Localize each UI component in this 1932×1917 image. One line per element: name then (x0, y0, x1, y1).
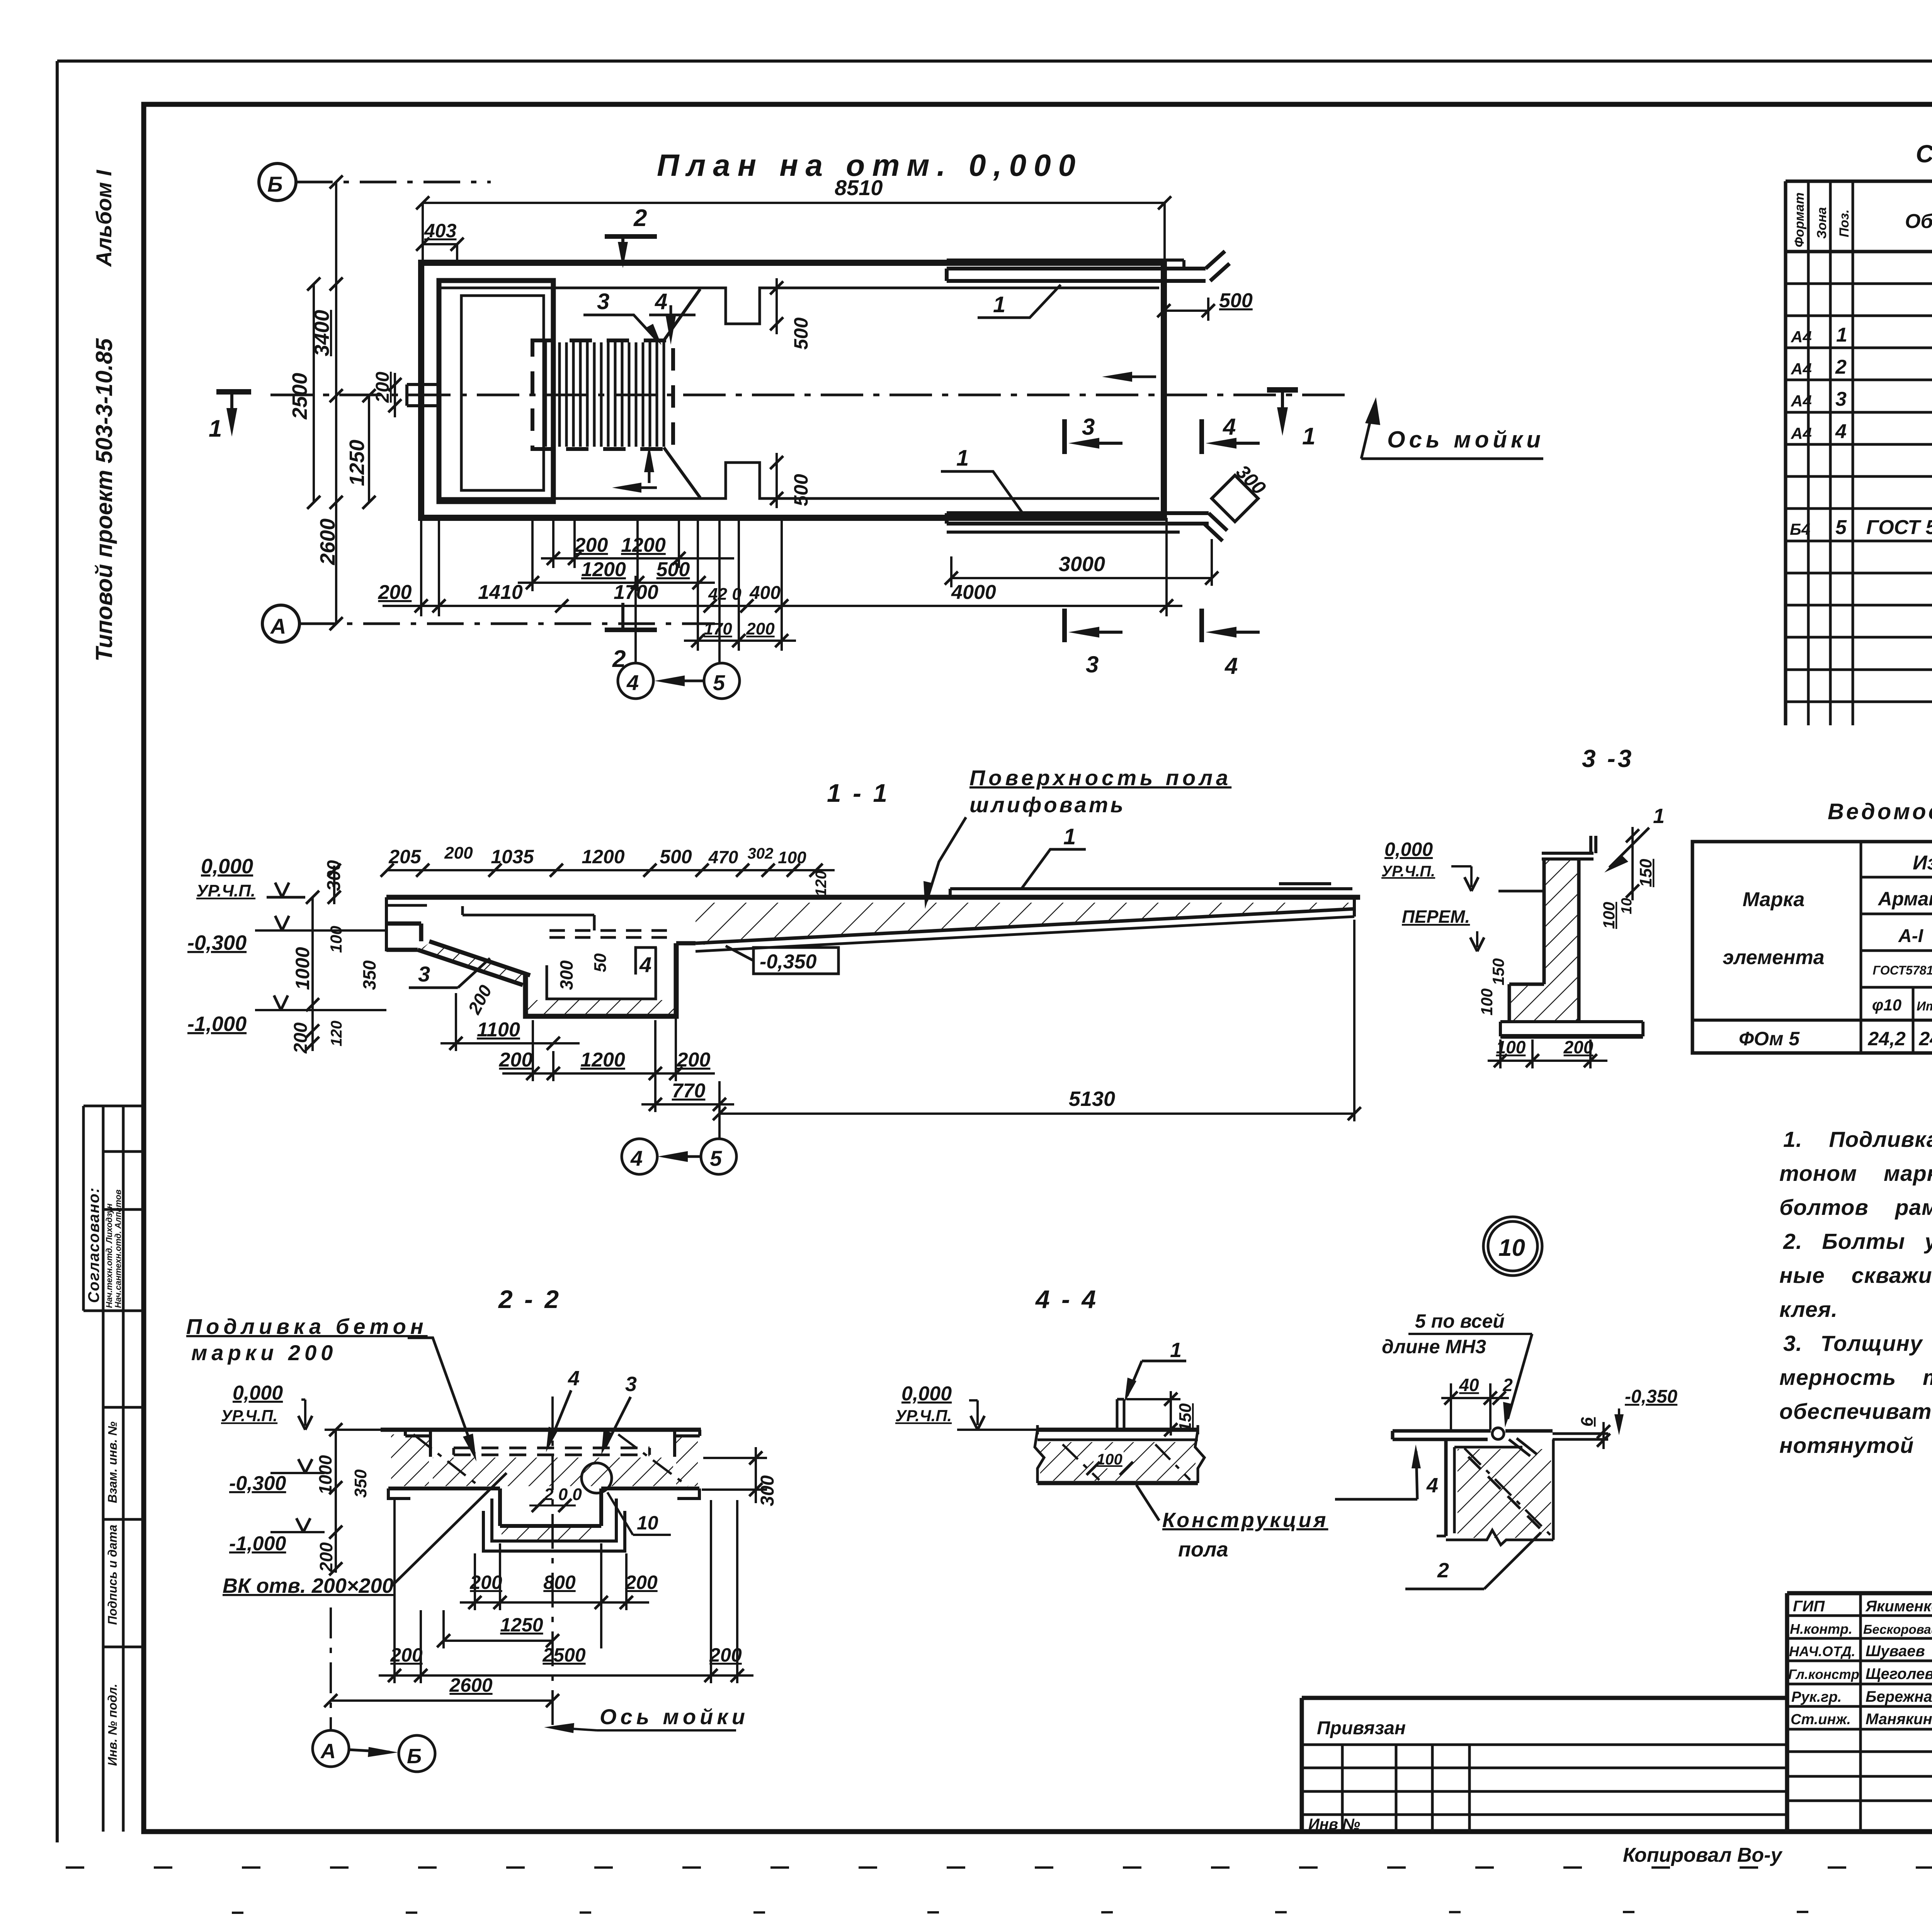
label floor construction (1136, 1485, 1328, 1561)
svg-text:ГИП: ГИП (1793, 1598, 1825, 1615)
wash axis label (1361, 397, 1544, 459)
svg-text:Б: Б (407, 1745, 422, 1768)
svg-text:500: 500 (790, 317, 812, 350)
section mark 3 top (1065, 414, 1122, 454)
wash axis dash-dot line (270, 394, 1352, 396)
svg-text:10: 10 (1619, 898, 1635, 914)
label -0.350 box (726, 946, 838, 974)
leader 1 s44 (1124, 1339, 1186, 1403)
pit outer box (439, 281, 553, 502)
arrow А to Б (349, 1747, 398, 1757)
detail leader 4 (1335, 1444, 1438, 1499)
svg-text:шлифовать: шлифовать (969, 793, 1126, 817)
svg-text:Бережная: Бережная (1866, 1688, 1932, 1705)
axis circle А s22 (313, 1730, 349, 1767)
node circle 4 (618, 663, 653, 699)
s44 slab (1035, 1425, 1204, 1483)
label ВК отв 200x200 (223, 1473, 507, 1597)
s11 hatch pit bottom (526, 1000, 676, 1015)
extension lines below plan (421, 518, 1167, 663)
svg-text:5130: 5130 (1069, 1087, 1115, 1111)
elevation 0.000 s11 (196, 855, 305, 900)
svg-text:1200: 1200 (621, 534, 666, 556)
leader 3 ramp (409, 958, 490, 988)
dim 5130 (713, 920, 1361, 1139)
svg-text:Б4: Б4 (1790, 520, 1810, 538)
svg-text:ВК отв. 200×200: ВК отв. 200×200 (223, 1574, 394, 1597)
svg-text:Ведомость расхода стали на: Ведомость расхода стали на элемент, кг (1828, 799, 1932, 824)
svg-text:НАЧ.ОТД.: НАЧ.ОТД. (1789, 1643, 1855, 1659)
svg-text:24,2: 24,2 (1867, 1028, 1906, 1050)
svg-text:4: 4 (626, 670, 639, 695)
detail dim 6 (1578, 1417, 1610, 1449)
svg-text:Альбом I: Альбом I (92, 170, 116, 267)
svg-text:5: 5 (1835, 516, 1847, 539)
s33 embedded plate МН4 (1542, 836, 1596, 859)
elevation -0.300 s11 (187, 916, 386, 954)
detail thin plate right (1553, 1434, 1608, 1439)
svg-text:-0,300: -0,300 (187, 931, 247, 954)
svg-text:А4: А4 (1791, 360, 1812, 378)
detail plate МН3 (1393, 1431, 1553, 1456)
svg-text:Поз.: Поз. (1837, 209, 1852, 237)
svg-text:42 0: 42 0 (708, 585, 742, 604)
s22 dim row 200 800 200 (460, 1543, 658, 1648)
svg-text:Бескоровайный: Бескоровайный (1863, 1622, 1932, 1636)
svg-text:-0,300: -0,300 (229, 1472, 286, 1495)
dim 300 diamond (1212, 461, 1270, 522)
svg-text:Изделия: Изделия (1913, 852, 1932, 874)
svg-text:500: 500 (656, 558, 690, 581)
s22 dim row 200 2500 200 (379, 1500, 753, 1683)
svg-text:Манякина: Манякина (1866, 1711, 1932, 1728)
arrow 5 to 4 (655, 675, 703, 686)
leader 3 grate frame (583, 289, 662, 345)
svg-text:170: 170 (704, 619, 732, 638)
svg-text:0,000: 0,000 (201, 855, 253, 878)
s33 right dims (1600, 827, 1655, 929)
inner wall line top with notch (439, 288, 1159, 324)
svg-text:50: 50 (591, 953, 610, 972)
leader 3 s22 (601, 1373, 637, 1455)
dim 200 opening (372, 372, 401, 417)
svg-text:болтов рамы.: болтов рамы. (1779, 1195, 1932, 1220)
detail concrete block (1446, 1439, 1553, 1545)
svg-text:10: 10 (637, 1512, 658, 1534)
svg-text:Формат: Формат (1792, 192, 1807, 247)
s44 embedded flange МН2 (1117, 1399, 1124, 1430)
svg-text:100: 100 (1478, 988, 1496, 1015)
s33 wall (1544, 859, 1579, 1022)
funnel transition diagonals (664, 289, 700, 340)
svg-text:2: 2 (1835, 356, 1847, 378)
dim 500 top notch (770, 278, 812, 350)
svg-text:нотянутой арматурной проволоки: нотянутой арматурной проволоки по ГОСТ 6… (1779, 1433, 1932, 1458)
svg-text:тоном марки 200 после окончате: тоном марки 200 после окончательной затя… (1779, 1161, 1932, 1186)
leader 1 top rail (978, 285, 1061, 318)
s11 floor top line (386, 895, 1360, 900)
svg-text:Марка: Марка (1743, 888, 1805, 911)
svg-text:А: А (270, 614, 286, 638)
svg-text:А: А (320, 1740, 336, 1763)
svg-text:ные скважины и закрепить с пом: ные скважины и закрепить с помощью эпокс… (1779, 1263, 1932, 1288)
svg-text:УР.Ч.П.: УР.Ч.П. (221, 1407, 277, 1425)
svg-text:200: 200 (1563, 1037, 1594, 1057)
dim 300 right s22 (702, 1447, 778, 1506)
svg-text:длине МН3: длине МН3 (1382, 1336, 1486, 1357)
dim 3000 (945, 539, 1218, 586)
svg-text:ГОСТ 5781-82: ГОСТ 5781-82 (1866, 516, 1932, 539)
svg-text:1250: 1250 (345, 440, 369, 486)
svg-text:2. Болты установить в готовый: 2. Болты установить в готовый фундамент … (1783, 1229, 1932, 1254)
svg-text:4: 4 (1835, 420, 1847, 443)
s22 dim 1250 (437, 1610, 559, 1648)
elevation 0.000 s44 (895, 1383, 1037, 1430)
label floor surface grind (923, 765, 1231, 909)
svg-text:Типовой проект 503-3-10.85: Типовой проект 503-3-10.85 (91, 338, 117, 662)
svg-text:3: 3 (597, 289, 609, 314)
s33 base slab (1500, 1022, 1643, 1036)
svg-text:марки 200: марки 200 (191, 1340, 337, 1365)
svg-text:6: 6 (1578, 1417, 1597, 1427)
detail circle 10 (1483, 1217, 1542, 1276)
svg-text:1: 1 (1170, 1339, 1182, 1362)
specification table rows (1790, 259, 1932, 698)
section mark 4 bottom (1202, 609, 1260, 679)
svg-text:200: 200 (372, 372, 393, 403)
svg-text:Конструкция: Конструкция (1162, 1509, 1328, 1532)
svg-text:1: 1 (209, 415, 222, 442)
svg-text:0,000: 0,000 (901, 1383, 952, 1405)
dim row A 200 1200 (541, 534, 734, 565)
svg-text:ПЕРЕМ.: ПЕРЕМ. (1402, 907, 1470, 927)
svg-text:φ10: φ10 (1872, 996, 1901, 1014)
svg-text:1700: 1700 (614, 581, 658, 604)
svg-text:3: 3 (1082, 414, 1095, 440)
detail angle (1437, 1439, 1522, 1536)
arrow 5 to 4 s11 (658, 1151, 700, 1162)
svg-text:Взам. инв. №: Взам. инв. № (105, 1421, 119, 1503)
svg-text:302: 302 (748, 845, 774, 862)
svg-text:150: 150 (1636, 859, 1655, 887)
grouting dashed box (532, 340, 673, 449)
svg-text:200: 200 (378, 581, 412, 604)
section mark 1 left (209, 392, 251, 442)
svg-text:0,000: 0,000 (1384, 839, 1433, 860)
left margin stamp labels (85, 1187, 123, 1766)
svg-text:100: 100 (1097, 1451, 1122, 1468)
svg-text:1000: 1000 (315, 1455, 335, 1495)
svg-text:500: 500 (660, 846, 692, 867)
svg-text:200: 200 (291, 1022, 311, 1054)
svg-text:300: 300 (757, 1475, 778, 1506)
svg-text:1: 1 (993, 292, 1005, 317)
svg-text:-0,350: -0,350 (1625, 1386, 1677, 1407)
top rail МН2 (947, 251, 1230, 281)
svg-text:3400: 3400 (310, 310, 333, 356)
section mark 3 bottom (1065, 609, 1122, 677)
label concrete grout (186, 1314, 476, 1461)
svg-text:Итого: Итого (1917, 999, 1932, 1013)
s11 left slab bottom (386, 924, 530, 985)
svg-text:Подливка бетон: Подливка бетон (186, 1314, 428, 1339)
svg-text:Согласовано:: Согласовано: (85, 1187, 102, 1303)
dim 8510 (416, 175, 1171, 263)
svg-text:-0,350: -0,350 (760, 951, 817, 973)
svg-text:300: 300 (324, 860, 344, 891)
elevation -1.000 s11 (187, 995, 386, 1036)
svg-text:1410: 1410 (478, 581, 523, 604)
axis circle Б s22 (399, 1735, 435, 1772)
s11 rail plate top right (950, 884, 1352, 897)
elevation 0.000 s22 (221, 1382, 312, 1430)
svg-text:клея.: клея. (1779, 1297, 1838, 1322)
s22 hatch (391, 1434, 429, 1486)
title block inner grid (1302, 1593, 1932, 1832)
svg-text:Ст.инж.: Ст.инж. (1791, 1711, 1851, 1728)
pit inner box (461, 296, 544, 490)
svg-text:Якименко: Якименко (1865, 1598, 1932, 1615)
svg-text:3: 3 (418, 962, 430, 986)
specification table header texts (1792, 192, 1932, 248)
svg-text:200: 200 (316, 1542, 336, 1572)
svg-text:2: 2 (1502, 1375, 1513, 1395)
s33 bottom dims (1488, 1037, 1607, 1068)
left wall opening (407, 384, 439, 406)
svg-text:Н.контр.: Н.контр. (1790, 1621, 1852, 1637)
svg-text:770: 770 (672, 1080, 706, 1102)
s22 left rim angle (405, 1430, 430, 1457)
svg-text:1: 1 (1063, 824, 1076, 849)
svg-text:100: 100 (327, 926, 345, 953)
left vertical dimension chain (314, 182, 369, 624)
bottom scan dashes (66, 1866, 1932, 1869)
svg-text:2600: 2600 (316, 519, 339, 565)
dim row C (378, 581, 1182, 612)
detail leader 2 (1405, 1533, 1541, 1589)
foundation outline (421, 263, 1164, 518)
svg-text:5 по всей: 5 по всей (1415, 1310, 1505, 1332)
svg-text:120: 120 (813, 871, 830, 896)
svg-text:350: 350 (351, 1469, 370, 1498)
svg-text:Привязан: Привязан (1317, 1718, 1406, 1738)
s22 narrow pit (500, 1488, 601, 1526)
svg-text:1: 1 (956, 446, 969, 471)
svg-text:1: 1 (1836, 324, 1847, 346)
svg-text:0,000: 0,000 (233, 1382, 283, 1404)
svg-text:1. Подливка под раму Р1 должна: 1. Подливка под раму Р1 должна осуществл… (1783, 1127, 1932, 1152)
dim 403 (416, 220, 464, 263)
left inner wall (438, 288, 440, 498)
s22 left vertical dims (315, 1423, 370, 1575)
svg-text:1200: 1200 (581, 558, 626, 581)
svg-text:4: 4 (630, 1146, 643, 1170)
notes text block (1779, 1127, 1932, 1458)
s22 floor line (381, 1428, 701, 1432)
svg-text:3: 3 (1835, 388, 1847, 410)
svg-text:Зона: Зона (1815, 207, 1829, 239)
detail dim 40 2 (1441, 1375, 1513, 1430)
svg-text:-1,000: -1,000 (187, 1012, 247, 1036)
inner wall line bottom with notch (439, 463, 1159, 498)
svg-text:Нач.техн.отд. Лиходзун: Нач.техн.отд. Лиходзун (104, 1203, 114, 1308)
leader 4 s22 (546, 1367, 580, 1452)
s11 pit inner (547, 947, 656, 999)
title block role names (1788, 1598, 1932, 1728)
dim row D 170 200 (684, 619, 796, 647)
s11 upper basin edge (463, 906, 594, 930)
svg-text:4: 4 (655, 289, 667, 314)
axis circle А (262, 605, 715, 642)
svg-text:1250: 1250 (500, 1614, 543, 1636)
svg-text:1: 1 (1302, 423, 1315, 450)
s22 bolt node circle ref (582, 1463, 612, 1493)
svg-text:120: 120 (328, 1021, 345, 1046)
elevation 0.000 s33 (1381, 839, 1478, 891)
dim 1100 (440, 993, 580, 1051)
svg-text:Инв №: Инв № (1308, 1816, 1360, 1833)
svg-text:А4: А4 (1791, 392, 1812, 410)
svg-text:УР.Ч.П.: УР.Ч.П. (196, 881, 255, 900)
svg-text:УР.Ч.П.: УР.Ч.П. (895, 1407, 952, 1425)
svg-text:500: 500 (790, 474, 812, 506)
svg-text:200: 200 (444, 844, 473, 862)
leader 1 rail plate (1022, 824, 1086, 888)
svg-text:Арматура класса: Арматура класса (1878, 888, 1932, 910)
specification table grid (1786, 181, 1932, 725)
svg-text:2500: 2500 (542, 1644, 585, 1666)
svg-text:Гл.констр.: Гл.констр. (1788, 1667, 1863, 1682)
svg-text:3. Толщину клеевого слоя приня: 3. Толщину клеевого слоя принять от 3 до… (1783, 1331, 1932, 1356)
svg-text:3: 3 (625, 1373, 637, 1396)
svg-text:205: 205 (388, 846, 422, 867)
grate hatch lines (546, 342, 664, 447)
node circle 5 (704, 663, 740, 699)
svg-text:Спецификация фундамента ФО: Спецификация фундамента ФОм5 (1916, 140, 1932, 168)
elevation -1.000 s22 (229, 1518, 325, 1555)
svg-text:Шуваев: Шуваев (1866, 1643, 1925, 1660)
s22 axis А line (330, 1607, 332, 1730)
svg-text:-1,000: -1,000 (229, 1533, 286, 1555)
svg-text:200: 200 (746, 619, 775, 638)
svg-text:Ось мойки: Ось мойки (1387, 427, 1544, 452)
svg-text:4: 4 (1426, 1474, 1438, 1497)
svg-text:300: 300 (556, 960, 577, 990)
elevation -0.300 s22 (229, 1459, 325, 1495)
s22 center axis (551, 1397, 554, 1727)
dim 500 right (1157, 289, 1253, 321)
s22 dim 2600 (324, 1674, 559, 1707)
detail bolt (1492, 1428, 1504, 1439)
s11 pit outline (526, 943, 676, 1016)
svg-text:3: 3 (1086, 651, 1099, 677)
title block outline (1302, 1593, 1932, 1832)
svg-text:1 - 1: 1 - 1 (827, 779, 889, 807)
steel table data row (1739, 1028, 1932, 1050)
svg-text:А4: А4 (1791, 328, 1812, 346)
label ПЕРЕМ s33 (1402, 907, 1484, 951)
s11 hatch ramp (418, 943, 530, 986)
svg-text:200: 200 (499, 1049, 533, 1071)
svg-text:150: 150 (1489, 958, 1507, 985)
s11 thin underline left (387, 904, 427, 907)
svg-text:Рук.гр.: Рук.гр. (1791, 1689, 1842, 1705)
svg-text:Подпись и дата: Подпись и дата (105, 1525, 119, 1625)
axis circle Б (259, 163, 491, 201)
detail label 5 по всей длине МН3 (1382, 1310, 1532, 1427)
svg-text:100: 100 (1600, 902, 1618, 929)
detail anchor dashed (1468, 1457, 1542, 1530)
svg-text:Б: Б (267, 172, 283, 196)
svg-text:ГОСТ5781-82: ГОСТ5781-82 (1873, 963, 1932, 977)
svg-text:Ось мойки: Ось мойки (600, 1704, 749, 1729)
svg-text:2600: 2600 (449, 1674, 492, 1696)
leader 1 bottom rail (941, 446, 1023, 514)
svg-text:500: 500 (1219, 289, 1253, 312)
dim 200 pit s22 (529, 1485, 582, 1512)
svg-text:4: 4 (1223, 414, 1236, 440)
svg-text:Поверхность пола: Поверхность пола (969, 765, 1231, 790)
svg-text:Копировал Во-у: Копировал Во-у (1623, 1844, 1783, 1866)
section mark 1 right (1267, 390, 1315, 450)
left margin stamp table (83, 1106, 144, 1832)
svg-text:4: 4 (568, 1367, 580, 1390)
svg-text:4000: 4000 (951, 581, 996, 604)
steel table grid (1692, 842, 1932, 1053)
wash axis label s22 (544, 1704, 749, 1733)
svg-text:403: 403 (424, 220, 457, 242)
svg-text:400: 400 (749, 583, 781, 603)
svg-text:100: 100 (778, 848, 806, 867)
svg-text:350: 350 (359, 960, 379, 990)
svg-text:2 - 2: 2 - 2 (498, 1285, 561, 1313)
section mark 2 bottom (605, 603, 657, 672)
svg-text:пола: пола (1178, 1538, 1228, 1561)
svg-text:800: 800 (543, 1572, 576, 1593)
svg-text:200: 200 (574, 534, 608, 556)
svg-text:Обозначение: Обозначение (1905, 210, 1932, 233)
svg-text:1100: 1100 (477, 1019, 520, 1041)
svg-text:1: 1 (1653, 805, 1665, 828)
svg-text:150: 150 (1176, 1403, 1195, 1432)
dim 150 s44 (1126, 1391, 1195, 1436)
dim row B 1200 500 (518, 558, 715, 589)
svg-text:8510: 8510 (835, 175, 883, 200)
s11 channel slope (676, 897, 1354, 951)
svg-text:2: 2 (1437, 1559, 1449, 1582)
s22 shelf lines (388, 1488, 699, 1499)
s33 wall hatch (1544, 859, 1579, 984)
svg-text:4: 4 (639, 953, 651, 977)
svg-text:обеспечиваться установкой фикс: обеспечиваться установкой фиксирующих ко… (1779, 1399, 1932, 1424)
detail label -0,350 (1614, 1386, 1677, 1435)
svg-text:Инв. № подл.: Инв. № подл. (105, 1684, 119, 1766)
svg-text:мерность толщины эпоксидного к: мерность толщины эпоксидного клеевого сл… (1779, 1365, 1932, 1390)
s44 hatch slab (1040, 1442, 1196, 1481)
dim 770 (641, 1080, 734, 1111)
bottom rail МН2 (947, 513, 1227, 541)
dim 500 bottom notch (770, 453, 812, 508)
s33 step (1509, 984, 1544, 1022)
top dim chain s11 (381, 844, 835, 896)
svg-text:1035: 1035 (491, 846, 534, 867)
svg-text:24,2: 24,2 (1918, 1028, 1932, 1050)
s22 grate dashed plate (454, 1448, 650, 1455)
svg-text:470: 470 (708, 847, 738, 867)
svg-text:1200: 1200 (580, 1049, 625, 1071)
svg-text:Щеголев: Щеголев (1866, 1665, 1932, 1682)
s22 right rim angle (675, 1430, 700, 1457)
